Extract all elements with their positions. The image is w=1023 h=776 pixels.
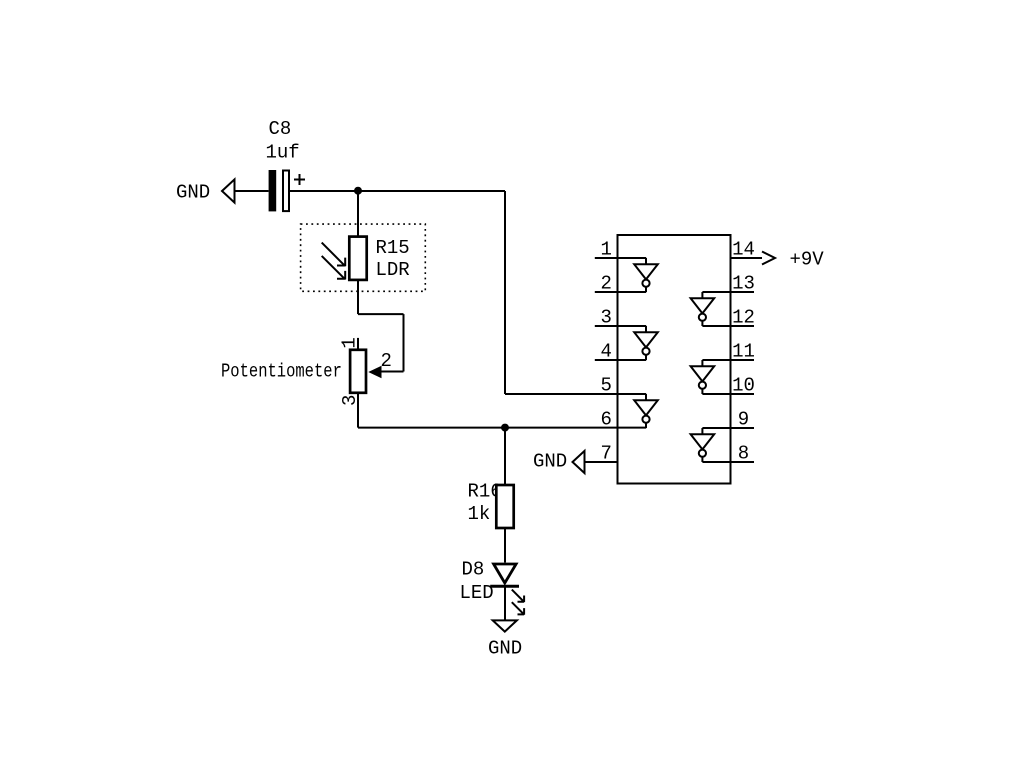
svg-text:C8: C8 xyxy=(269,118,292,140)
pin 10 wire xyxy=(702,393,754,395)
svg-text:6: 6 xyxy=(601,409,612,431)
wire node to R16 xyxy=(504,428,506,484)
svg-text:1k: 1k xyxy=(468,503,491,525)
svg-text:2: 2 xyxy=(381,350,392,372)
svg-text:9: 9 xyxy=(738,409,749,431)
ground symbol (pin 7, arrow pointing left) xyxy=(573,451,585,473)
wire ground to pin 7 xyxy=(585,461,618,463)
wire LED to ground xyxy=(504,586,506,619)
LDR light arrow 2 xyxy=(322,256,346,280)
svg-text:12: 12 xyxy=(732,307,755,329)
inverter U1D (pins 13-12) xyxy=(691,292,715,326)
pin 1 wire xyxy=(595,257,646,259)
potentiometer wiper arrow pin 2 xyxy=(368,366,381,379)
inverter U1E (pins 11-10) xyxy=(691,360,715,394)
LED emission arrow 1 xyxy=(512,590,524,603)
wire into pin 5 xyxy=(505,393,646,395)
wire jog to wiper xyxy=(381,371,404,373)
wire LDR to jog xyxy=(357,280,359,314)
pin 12 wire xyxy=(702,325,754,327)
svg-text:1: 1 xyxy=(601,239,612,261)
svg-text:5: 5 xyxy=(601,375,612,397)
svg-text:R15: R15 xyxy=(376,237,410,259)
capacitor C8 positive plate xyxy=(283,171,289,212)
svg-text:1: 1 xyxy=(339,337,361,348)
svg-text:10: 10 xyxy=(732,375,755,397)
svg-text:3: 3 xyxy=(601,307,612,329)
pin 14 wire xyxy=(731,257,763,259)
potentiometer pin 3 wire xyxy=(357,393,359,428)
capacitor C8 negative plate xyxy=(269,170,277,211)
pin 8 wire xyxy=(702,461,754,463)
resistor R16 body xyxy=(496,485,513,528)
IC U1 body xyxy=(618,235,731,484)
wire R16 to LED xyxy=(504,528,506,563)
wire C8 to node xyxy=(289,190,505,192)
inverter U1A (pins 1-2) xyxy=(634,258,658,292)
+9V arrow xyxy=(762,252,775,265)
resistor R15 body (LDR) xyxy=(349,237,366,280)
svg-text:Potentiometer: Potentiometer xyxy=(221,361,342,383)
wire jog right xyxy=(358,313,404,315)
inverter U1C (pins 5-6) xyxy=(634,394,658,428)
pin 3 wire xyxy=(595,325,646,327)
svg-text:1uf: 1uf xyxy=(266,142,300,164)
wire pot to pin 6 xyxy=(358,427,646,429)
svg-text:GND: GND xyxy=(533,451,567,473)
pin 4 wire xyxy=(595,359,646,361)
LED cathode bar xyxy=(490,585,519,588)
svg-text:GND: GND xyxy=(488,638,522,660)
junction node at C8/LDR xyxy=(354,187,362,195)
LED D8 triangle xyxy=(494,564,516,583)
svg-text:4: 4 xyxy=(601,341,612,363)
svg-text:14: 14 xyxy=(732,239,755,261)
svg-text:GND: GND xyxy=(176,182,210,204)
potentiometer body xyxy=(350,350,366,393)
wire ground to C8 xyxy=(235,190,269,192)
svg-text:13: 13 xyxy=(732,273,755,295)
pin 13 wire xyxy=(702,291,754,293)
dotted box around LDR xyxy=(301,224,426,291)
pin 9 wire xyxy=(702,427,754,429)
svg-text:11: 11 xyxy=(732,341,755,363)
junction node at R16 xyxy=(501,424,509,432)
LED emission arrow 2 xyxy=(512,602,524,615)
wire node to LDR xyxy=(357,191,359,236)
svg-text:+9V: +9V xyxy=(790,249,825,271)
inverter U1B (pins 3-4) xyxy=(634,326,658,360)
capacitor plus sign xyxy=(294,174,305,185)
svg-text:LDR: LDR xyxy=(376,259,410,281)
wire jog down xyxy=(403,314,405,371)
pin 11 wire xyxy=(702,359,754,361)
ground symbol (bottom, arrow pointing down) xyxy=(493,620,517,631)
LDR light arrow 1 xyxy=(322,243,346,267)
svg-text:LED: LED xyxy=(460,582,494,604)
svg-text:2: 2 xyxy=(601,273,612,295)
pin 2 wire xyxy=(595,291,646,293)
wire node down right side xyxy=(504,191,506,394)
svg-text:8: 8 xyxy=(738,443,749,465)
potentiometer pin 1 stub xyxy=(357,338,359,349)
ground symbol (left, arrow pointing left) xyxy=(222,179,235,202)
svg-text:D8: D8 xyxy=(462,559,485,581)
inverter U1F (pins 9-8) xyxy=(691,428,715,462)
